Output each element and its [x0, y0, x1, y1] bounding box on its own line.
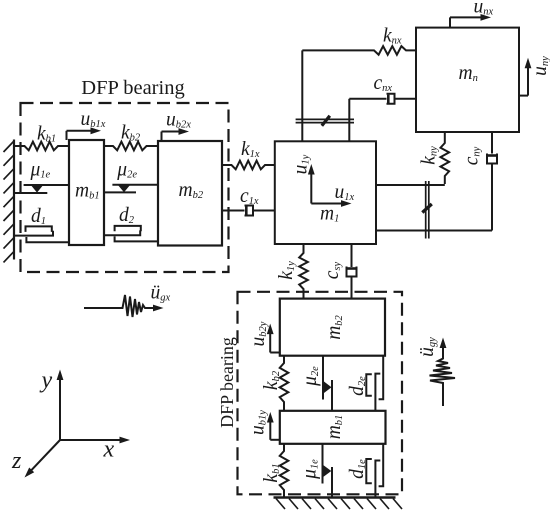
label ub2x: [166, 110, 191, 131]
friction element mu1e (left): [14, 185, 69, 193]
ground excitation arrow ugx: [84, 295, 164, 317]
arrow ub2y: [267, 324, 280, 353]
label k1x: [241, 139, 260, 160]
spring k1x: [222, 161, 275, 170]
damper cny: [487, 132, 497, 231]
friction element mu2e (left): [104, 185, 158, 193]
label kb1 (bottom): [261, 463, 282, 482]
dashed enclosure DFP bearing (bottom): [238, 292, 403, 495]
spring kb1 (bottom): [280, 444, 289, 497]
gap element d1e: [366, 444, 383, 497]
spring knx: [302, 46, 416, 55]
label mu1e (bottom): [300, 459, 321, 480]
mass mb2 (left): [158, 141, 222, 246]
arrow u1x: [311, 200, 351, 207]
label DFP bearing (left): [81, 77, 184, 99]
wire m1 right upper arm: [376, 184, 445, 186]
spring kb1: [14, 142, 69, 151]
ground (bottom fixed support): [274, 498, 403, 510]
label c1x: [240, 186, 259, 207]
label mb2 (left): [179, 180, 204, 201]
svg-text:y: y: [40, 368, 53, 394]
label u1y: [291, 154, 312, 174]
label ugy: [417, 337, 438, 357]
label mu2e (left): [116, 159, 137, 180]
label mn: [459, 63, 478, 84]
mass mb1 (bottom): [280, 411, 386, 444]
spring k1y: [299, 244, 308, 299]
dashed enclosure DFP bearing (left): [21, 103, 229, 272]
label mb1 (left): [75, 181, 100, 202]
label ub2y: [248, 321, 269, 346]
label d1e: [347, 459, 368, 479]
arrow unx: [450, 14, 491, 28]
arrow ub1y: [267, 412, 280, 440]
label uny: [530, 56, 550, 76]
svg-text:z: z: [11, 448, 22, 474]
coordinate axes: [25, 370, 131, 478]
label mb1 (bottom): [324, 415, 345, 440]
arrow ub1x: [67, 127, 102, 140]
label y axis: [40, 368, 53, 394]
svg-text:DFP bearing: DFP bearing: [217, 337, 237, 428]
label kb1: [37, 124, 56, 145]
label cny: [462, 146, 483, 165]
label k1y: [276, 261, 297, 280]
spring kny: [441, 132, 450, 184]
wall (left fixed support): [4, 140, 15, 263]
label z axis: [11, 448, 22, 474]
svg-text:x: x: [103, 437, 115, 463]
rigid link symbol (top): [296, 116, 354, 126]
label knx: [383, 26, 402, 47]
label ub1x: [81, 109, 106, 130]
svg-text:DFP bearing: DFP bearing: [81, 77, 184, 99]
arrow u1y: [308, 164, 315, 204]
gap element d2e: [366, 356, 383, 411]
label d2e: [347, 376, 368, 396]
damper c1x: [222, 206, 275, 216]
damper csy: [347, 244, 357, 299]
damper cnx: [349, 94, 416, 104]
label kb2 (bottom): [261, 370, 282, 390]
label cnx: [374, 73, 393, 94]
spring kb2: [104, 142, 158, 151]
label m1: [320, 204, 339, 225]
wire m1 top to knx: [301, 50, 303, 141]
mass mb2 (bottom): [280, 299, 385, 356]
arrow ub2x: [162, 128, 190, 141]
arrow uny: [519, 58, 531, 96]
label d1: [31, 206, 46, 227]
friction element mu1e (bottom): [323, 444, 333, 497]
gap element d2: [104, 226, 158, 242]
label csy: [322, 261, 343, 279]
rigid link symbol (right): [422, 181, 432, 239]
wire m1 top to cnx: [348, 99, 350, 142]
label kny: [419, 146, 440, 165]
wire m1 right lower arm: [376, 230, 492, 232]
label x axis: [103, 437, 115, 463]
mass mb1 (left): [69, 140, 104, 245]
label unx: [474, 0, 494, 18]
label u1x: [335, 182, 355, 203]
label ub1y: [248, 410, 269, 435]
mass m1: [275, 141, 376, 244]
gap element d1: [14, 226, 69, 242]
ground excitation arrow ugy: [430, 338, 456, 407]
label mb2 (bottom): [324, 314, 345, 339]
friction element mu2e (bottom): [323, 356, 332, 411]
label ugx: [151, 283, 171, 304]
label d2: [119, 205, 135, 226]
label mu1e (left): [30, 160, 51, 181]
mass mn: [416, 28, 519, 132]
label mu2e (bottom): [300, 366, 321, 387]
spring kb2 (bottom): [280, 356, 289, 411]
label DFP bearing (bottom, rotated): [217, 337, 237, 428]
label kb2: [121, 123, 141, 144]
